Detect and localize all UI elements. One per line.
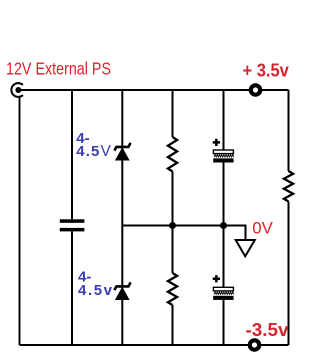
capacitor C3 polarized [213,275,234,300]
wire ground stub [245,225,247,241]
wire branch resistor middle [172,172,174,274]
svg-text:+ 3.5v: + 3.5v [243,61,290,81]
node junction R branch [169,222,176,229]
wire top rail [18,89,288,91]
svg-text:4.5V: 4.5V [76,143,111,160]
resistor R2 [168,273,177,305]
zener D2 [114,282,130,299]
wire right rail lower [288,202,290,346]
resistor R1 [168,137,177,171]
wire middle rail [122,225,245,227]
terminal J1 input [11,83,23,97]
wire left rail [19,96,21,345]
zener D1 [114,143,130,160]
resistor R3 [284,171,293,202]
capacitor C2 polarized [213,139,234,163]
wire branch resistor lower lead [172,305,174,345]
svg-text:-3.5v: -3.5v [246,320,290,340]
wire branch ecap upper lead [223,90,225,150]
terminal -3.5V [250,340,259,349]
svg-text:4.5v: 4.5v [78,282,113,299]
wire bottom rail [20,344,289,346]
ground symbol [236,240,255,256]
wire branch ecap middle [223,163,225,288]
wire right rail [288,90,290,171]
terminal +3.5V [251,85,260,94]
node junction C branch [220,222,227,229]
wire branch ecap lower lead [223,300,225,345]
svg-text:12V External PS: 12V External PS [6,59,111,79]
svg-text:0V: 0V [252,219,273,238]
capacitor C1 [60,219,85,231]
wire branch zener [121,90,123,345]
wire branch C1 upper [71,90,73,219]
wire branch resistor upper lead [172,90,174,137]
wire branch C1 lower [71,231,73,345]
